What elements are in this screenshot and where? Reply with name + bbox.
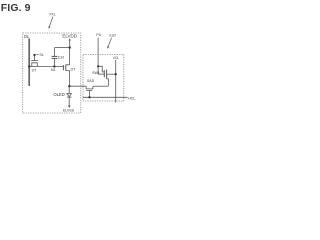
svg-text:VCL: VCL — [113, 56, 120, 60]
svg-text:EU2: EU2 — [110, 33, 117, 37]
svg-text:PXL: PXL — [50, 13, 56, 17]
svg-text:ST: ST — [32, 68, 37, 72]
svg-text:DL: DL — [24, 34, 30, 39]
svg-text:PU: PU — [96, 33, 101, 37]
svg-text:ELVSS: ELVSS — [63, 109, 75, 113]
svg-text:OLED: OLED — [53, 92, 64, 97]
svg-text:HCL: HCL — [128, 96, 135, 100]
svg-text:SL: SL — [39, 53, 44, 57]
svg-text:SW1: SW1 — [92, 71, 99, 75]
svg-text:N1: N1 — [51, 68, 56, 72]
svg-text:ELVDD: ELVDD — [62, 33, 77, 38]
svg-text:FIG. 9: FIG. 9 — [1, 2, 31, 14]
svg-text:DT: DT — [71, 67, 77, 71]
svg-text:GAD: GAD — [87, 79, 95, 83]
svg-text:Cst: Cst — [58, 55, 65, 60]
